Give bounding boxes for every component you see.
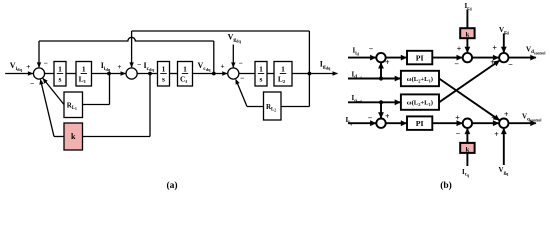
- wire 1/s to 1/L2: [267, 73, 274, 75]
- svg-text:1: 1: [162, 65, 166, 74]
- block w1: [401, 71, 439, 86]
- svg-text:−: −: [508, 60, 513, 69]
- wire T1 to PI1: [386, 57, 407, 59]
- wire PI1 to A1: [432, 57, 462, 59]
- block 1/Cf: [178, 62, 193, 87]
- svg-text:1: 1: [82, 65, 86, 74]
- summing junction S2: [126, 68, 137, 79]
- summing junction A2: [463, 119, 472, 128]
- svg-text:+: +: [455, 114, 460, 123]
- svg-text:s: s: [59, 75, 62, 84]
- svg-text:Vidq: Vidq: [10, 61, 23, 72]
- wire Icdq down to k: [149, 74, 151, 137]
- svg-text:+: +: [492, 44, 497, 53]
- wire Icq up to kq: [466, 153, 468, 166]
- wire w1 diagonal to B2: [439, 79, 500, 121]
- svg-text:PI: PI: [416, 119, 424, 128]
- svg-text:(a): (a): [166, 180, 177, 191]
- wire Igdq feedback horizontal: [132, 30, 310, 32]
- summing junction S1: [33, 68, 44, 79]
- svg-text:s: s: [162, 75, 165, 84]
- wire Idref up into T1: [380, 63, 382, 79]
- svg-text:Icdq: Icdq: [144, 61, 155, 72]
- wire Icd down to kd: [466, 10, 468, 29]
- svg-text:(b): (b): [440, 180, 452, 191]
- wire B1 to output: [509, 57, 536, 59]
- block PI2: [407, 116, 432, 129]
- node Vcdq: [212, 72, 216, 76]
- summing junction T1: [376, 53, 385, 62]
- wire Iqref to w2: [348, 101, 400, 103]
- svg-text:Iiq: Iiq: [346, 116, 353, 126]
- svg-text:−: −: [240, 74, 244, 83]
- wire A2 to B2: [472, 122, 498, 124]
- block 1/L1: [76, 62, 92, 87]
- wire 1/L1 to S2: [92, 73, 126, 75]
- wire RL2 left segment: [247, 106, 264, 108]
- block kd pink: [460, 28, 474, 38]
- wire Iqref down into T2: [380, 102, 382, 118]
- wire kd down into A1: [466, 38, 468, 52]
- wire 1/Cf to S3: [193, 73, 228, 75]
- svg-text:PI: PI: [416, 54, 424, 63]
- svg-text:k: k: [71, 132, 76, 141]
- summing junction T2: [376, 119, 385, 128]
- svg-text:Vgdq: Vgdq: [228, 32, 242, 43]
- wire Vcdq feedback up: [213, 41, 215, 74]
- wire Igdq feedback up: [308, 31, 310, 74]
- svg-text:+: +: [385, 112, 390, 121]
- wire k left segment: [54, 136, 64, 138]
- wire Iidq down to RL1: [109, 74, 111, 105]
- block 1/s third: [255, 62, 267, 87]
- wire Iid to T1: [348, 57, 376, 59]
- wire B2 to output: [509, 122, 536, 124]
- svg-text:−: −: [454, 60, 459, 69]
- svg-text:+: +: [385, 58, 390, 67]
- wire k diagonal into S1: [41, 81, 54, 137]
- svg-text:Igdq: Igdq: [320, 59, 331, 70]
- svg-text:Icq: Icq: [462, 168, 470, 178]
- summing junction S3: [228, 68, 239, 79]
- summing junction B2: [499, 119, 508, 128]
- svg-text:+: +: [117, 62, 121, 71]
- wire Iiq to T2: [348, 122, 376, 124]
- svg-text:Icd: Icd: [465, 2, 473, 12]
- summing junction B1: [499, 53, 508, 62]
- wire S1 to integrator: [45, 73, 54, 75]
- svg-text:Vdcontrol: Vdcontrol: [526, 45, 545, 55]
- svg-text:+: +: [26, 62, 30, 71]
- svg-text:k: k: [466, 32, 470, 39]
- block RL1: [64, 92, 83, 118]
- wire 1/s to 1/L1: [66, 73, 76, 75]
- node Iqref: [379, 100, 383, 104]
- svg-text:−: −: [368, 113, 373, 122]
- svg-text:−: −: [456, 129, 461, 138]
- wire Vgq up into B2: [503, 129, 505, 165]
- wire w2 diagonal to B1: [439, 60, 500, 102]
- wire 1/L2 to output: [292, 73, 337, 75]
- node Idref: [379, 76, 383, 80]
- wire S3 to 1/s: [239, 73, 255, 75]
- wire kq up into A2: [466, 129, 468, 143]
- wire PI2 to A2: [432, 122, 462, 124]
- node Igdq: [308, 72, 312, 76]
- svg-text:−: −: [43, 59, 47, 68]
- svg-text:Iidq: Iidq: [101, 61, 111, 72]
- svg-text:−: −: [137, 60, 141, 69]
- svg-text:−: −: [369, 44, 374, 53]
- block RL2: [264, 92, 282, 120]
- wire Igdq down to RL2: [308, 74, 310, 107]
- svg-text:+: +: [457, 45, 462, 54]
- svg-text:s: s: [260, 75, 263, 84]
- wire RL2 diagonal into S3: [236, 80, 247, 107]
- wire RL1 diagonal into S1: [43, 78, 64, 104]
- wire Vgdq down into S3 top: [232, 45, 234, 68]
- block 1/s second: [158, 62, 170, 87]
- block k pink: [64, 123, 83, 150]
- wire feedback down into S1 top: [38, 41, 40, 67]
- wire input to S1: [5, 73, 33, 75]
- wire Idref to w1: [348, 78, 400, 80]
- svg-text:1: 1: [259, 65, 263, 74]
- wire A1 to B1: [472, 57, 498, 59]
- block kq pink: [460, 143, 474, 153]
- wire 1/s to 1/Cf: [170, 73, 178, 75]
- svg-text:1: 1: [281, 65, 285, 74]
- svg-text:+: +: [494, 130, 499, 139]
- wire feedback down into S2 top: [131, 31, 133, 67]
- svg-text:Vcdq: Vcdq: [198, 61, 212, 72]
- wire T2 to PI2: [386, 122, 407, 124]
- svg-text:1: 1: [58, 65, 62, 74]
- svg-text:−: −: [30, 79, 34, 88]
- wire S2 to 1/s: [137, 73, 157, 75]
- node Iidq: [107, 72, 111, 76]
- block 1/s first: [54, 62, 66, 87]
- svg-text:Vgq: Vgq: [499, 166, 510, 176]
- block 1/L2: [274, 62, 292, 87]
- block w2: [401, 94, 439, 109]
- svg-text:−: −: [238, 58, 242, 67]
- svg-text:k: k: [466, 146, 470, 153]
- svg-text:1: 1: [183, 65, 187, 74]
- node Icdq: [148, 72, 152, 76]
- svg-text:+: +: [220, 61, 224, 70]
- summing junction A1: [463, 53, 472, 62]
- svg-text:+: +: [491, 114, 496, 123]
- svg-text:Iid: Iid: [353, 47, 360, 57]
- block PI1: [407, 51, 432, 65]
- wire Vgd down into B1: [503, 34, 505, 53]
- wire Vcdq feedback horizontal with hop: [39, 37, 214, 41]
